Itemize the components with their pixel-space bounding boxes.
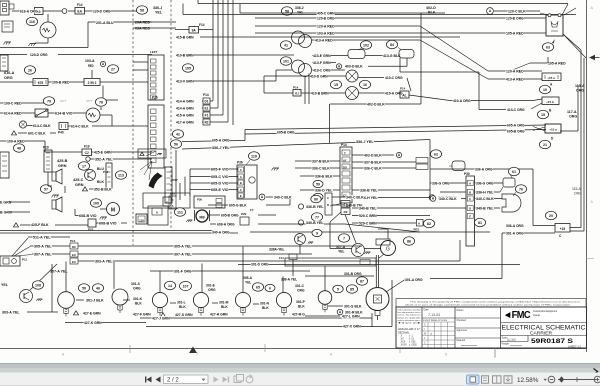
svg-text:P14: P14 (341, 143, 347, 147)
svg-text:103-A RED: 103-A RED (317, 30, 335, 35)
node 57 (40, 185, 51, 193)
svg-text:15: 15 (541, 113, 545, 117)
svg-text:119: 119 (251, 154, 257, 158)
wire 336-D YEL (300, 189, 340, 191)
svg-text:LEFT: LEFT (150, 50, 158, 54)
svg-text:87: 87 (360, 279, 364, 283)
wire 336-A ORG right (533, 225, 555, 227)
connector 15 A (545, 124, 561, 133)
svg-text:inches. The tolerances: inches. The tolerances (398, 314, 421, 317)
wire 403-D BLK (345, 64, 363, 68)
terminal ring (62, 9, 67, 14)
svg-text:605-B ORG: 605-B ORG (507, 128, 525, 133)
svg-text:427-J GRN: 427-J GRN (152, 315, 170, 320)
svg-text:ORG: ORG (576, 89, 584, 93)
zone ticks (129, 345, 131, 353)
node 41 (280, 41, 291, 49)
svg-text:RES: RES (414, 228, 420, 232)
motor brackets (194, 210, 196, 221)
wire 427-H GRN (210, 312, 228, 316)
wire 529-C BRN (352, 215, 430, 217)
svg-text:601-C BLK: 601-C BLK (28, 131, 46, 136)
wire 336-C BLK pin (352, 167, 416, 169)
connector 415 A (542, 73, 561, 81)
node 6 (265, 284, 275, 291)
ground radio (53, 194, 59, 196)
title block notice strip (396, 299, 586, 308)
svg-text:301-B ORG: 301-B ORG (344, 271, 362, 276)
svg-text:26: 26 (28, 68, 32, 72)
svg-text:605-C VIO: 605-C VIO (211, 174, 229, 179)
svg-text:337-B BLK: 337-B BLK (364, 159, 382, 164)
label 301-M BLK (212, 302, 218, 304)
svg-text:425-C: 425-C (73, 178, 84, 182)
label 103-A RED (85, 59, 95, 63)
svg-text:YEL: YEL (338, 250, 345, 254)
transistor dimmer (20, 290, 33, 303)
page fit icon selected (467, 375, 480, 384)
svg-text:C: C (172, 198, 174, 202)
connector box 10 (35, 8, 44, 15)
svg-text:E: E (469, 214, 471, 218)
svg-text:413-0 GRN: 413-0 GRN (176, 78, 194, 83)
node 14 (164, 281, 175, 289)
wire 120-A RED (255, 25, 420, 27)
svg-text:59R0187 S: 59R0187 S (531, 338, 574, 345)
svg-text:336-A ORG: 336-A ORG (506, 223, 524, 228)
svg-text:P14: P14 (400, 87, 406, 91)
wire 427-S GRN (175, 313, 193, 317)
svg-text:F7: F7 (250, 208, 254, 212)
wire 307-A YEL long (78, 253, 312, 255)
connector P19 (44, 150, 52, 172)
switch feed diagonals (562, 4, 568, 15)
ground upper left (5, 41, 11, 43)
zone tick below title block (494, 348, 496, 358)
svg-text:9: 9 (316, 231, 318, 235)
svg-text:301-J BLK: 301-J BLK (86, 297, 104, 302)
svg-text:ORG: ORG (4, 76, 13, 80)
svg-text:ORG: ORG (297, 289, 305, 293)
node 61 (508, 167, 519, 175)
svg-text:336-C BLK: 336-C BLK (364, 165, 382, 170)
svg-text:427-F GRN: 427-F GRN (133, 311, 151, 316)
svg-text:41: 41 (284, 43, 288, 47)
svg-text:ORG: ORG (574, 192, 582, 196)
svg-text:86: 86 (407, 239, 411, 243)
node 113 (115, 171, 126, 179)
svg-text:This drawing is the property o: This drawing is the property of FMC Corp… (410, 300, 580, 303)
svg-text:605-G BLK: 605-G BLK (229, 202, 247, 207)
speaker 2 (52, 200, 56, 209)
title block distribution grid (422, 317, 455, 319)
svg-text:D: D (327, 203, 329, 207)
svg-text:+15 a: +15 a (549, 128, 557, 132)
svg-text:58: 58 (140, 8, 144, 12)
label 338A-YEL (269, 247, 285, 251)
svg-text:62: 62 (434, 152, 438, 156)
wire 336-B YEL pin (352, 189, 430, 191)
svg-text:Group: Group (533, 314, 541, 317)
svg-text:7-13-51: 7-13-51 (428, 313, 440, 317)
svg-text:111: 111 (177, 210, 183, 214)
node 5 (333, 285, 343, 293)
svg-text:C: C (469, 197, 471, 201)
wire 413-G BLK (365, 55, 399, 57)
svg-text:8: 8 (62, 353, 64, 357)
svg-text:7: 7 (196, 353, 198, 357)
svg-text:402-D BLK: 402-D BLK (367, 101, 385, 106)
svg-text:340-A ORG: 340-A ORG (212, 229, 230, 234)
node 26 (24, 66, 35, 74)
svg-text:105-A RED: 105-A RED (548, 60, 566, 65)
wire 301-R BLK (337, 309, 343, 315)
wire 402-D BLK horizontal (330, 103, 421, 105)
svg-text:85: 85 (350, 287, 354, 291)
nav first page button (147, 377, 152, 383)
title block checked row (455, 327, 501, 329)
svg-text:120-D ORG: 120-D ORG (93, 9, 111, 14)
wire 605-B ORG mid (208, 214, 220, 216)
warning triangle 352 (82, 187, 87, 191)
svg-text:BLK: BLK (135, 302, 142, 306)
svg-text:413-G BLK: 413-G BLK (383, 53, 401, 58)
wire 340-B YEL right2 (352, 207, 446, 209)
svg-text:15: 15 (334, 83, 338, 87)
node 48 (13, 144, 24, 152)
svg-text:117-A: 117-A (567, 110, 577, 114)
wire 410-A ORG right (409, 95, 450, 101)
wire 109-B RED (48, 81, 84, 83)
relay bracket (452, 161, 465, 171)
headlight main (366, 288, 389, 311)
svg-text:Weight: Weight (502, 342, 510, 345)
node 85 (346, 285, 357, 293)
lamp indicator 2 (346, 87, 359, 100)
svg-text:F1: F1 (205, 113, 209, 117)
fan from connector C8 (12, 238, 28, 256)
svg-text:B: B (240, 181, 242, 185)
svg-text:BLK: BLK (179, 305, 186, 309)
svg-text:101: 101 (283, 59, 289, 63)
svg-text:C: C (240, 168, 242, 172)
node 60 (313, 193, 323, 200)
svg-text:P14: P14 (70, 239, 76, 243)
headlamp 6 (276, 292, 291, 307)
svg-text:± .01: ± .01 (409, 339, 415, 341)
svg-text:2 / 2: 2 / 2 (167, 378, 179, 384)
wire 405-C GRN (240, 12, 445, 14)
headlamp 3 (152, 292, 167, 307)
node 50 (78, 284, 89, 292)
svg-text:305-A: 305-A (243, 276, 253, 280)
svg-text:ORG: ORG (133, 287, 141, 291)
svg-text:17: 17 (82, 164, 86, 168)
svg-text:340-B YEL: 340-B YEL (306, 220, 324, 225)
svg-text:AL: AL (402, 93, 406, 97)
svg-text:YEL: YEL (297, 11, 304, 15)
svg-text:336-J YEL: 336-J YEL (212, 145, 230, 150)
wire 340-C BLK cluster (259, 194, 265, 200)
wire 120-D ORG (85, 10, 141, 12)
svg-text:E GRN: E GRN (0, 201, 12, 205)
svg-text:.XXX: .XXX (400, 342, 406, 344)
wire into pin B left (440, 191, 466, 193)
title block drawn row (455, 317, 501, 319)
svg-text:301-L: 301-L (177, 301, 186, 305)
svg-text:307-A YEL: 307-A YEL (174, 251, 192, 256)
svg-text:414-A GRN: 414-A GRN (176, 106, 194, 111)
wire 340-B YEL right (475, 207, 500, 209)
svg-text:109: 109 (93, 201, 99, 205)
wires crossing into P20 (100, 81, 148, 83)
next view icon disabled (246, 376, 253, 383)
svg-text:336-B YEL: 336-B YEL (306, 204, 324, 209)
svg-text:338A-YEL: 338A-YEL (269, 247, 285, 252)
wire 417-A GRN (176, 120, 194, 124)
wire 303-A YEL 2 (27, 311, 58, 313)
svg-text:410-B BRN: 410-B BRN (311, 90, 329, 95)
wire D2 to regulator (345, 215, 356, 244)
svg-text:C: C (240, 188, 242, 192)
svg-text:413-F GRN: 413-F GRN (313, 60, 331, 65)
svg-text:6: 6 (330, 353, 332, 357)
connector P14 center (340, 147, 352, 203)
connector pins D1 E1 F1 R2 (202, 100, 213, 102)
svg-text:Material: Material (457, 339, 466, 342)
svg-text:ORG: ORG (208, 288, 216, 292)
transistor audio (85, 170, 96, 181)
wire 340-B YEL 2 (298, 220, 303, 225)
node 56 (170, 140, 181, 148)
svg-text:20: 20 (549, 214, 553, 218)
svg-text:P27: P27 (173, 178, 179, 182)
svg-text:BLK: BLK (221, 305, 228, 309)
toolbar background (0, 373, 600, 386)
wire 402-D BLK riser (420, 13, 422, 104)
bookmark icon (482, 376, 489, 383)
svg-text:427-K GRN: 427-K GRN (84, 320, 102, 325)
svg-text:80: 80 (314, 197, 318, 201)
warning triangle 427-E (73, 311, 78, 315)
headlamp 1 (58, 292, 75, 309)
svg-text:115-A: 115-A (575, 84, 585, 88)
wire 413-C ORG (312, 69, 345, 71)
horizontal scrollbar track (0, 364, 600, 373)
long wire bus 340 (0, 230, 213, 232)
svg-text:113: 113 (118, 173, 124, 177)
wire 336-A ORG top (430, 168, 533, 170)
wire 336-G ORG right (475, 182, 503, 184)
node 59 (313, 180, 323, 187)
svg-text:65: 65 (256, 285, 260, 289)
svg-text:F19: F19 (84, 145, 90, 149)
svg-text:Date: Date (424, 309, 430, 312)
svg-text:B GRN: B GRN (0, 211, 12, 215)
page number input (164, 375, 209, 384)
transistor flasher mid (295, 234, 306, 245)
page border bottom (0, 348, 587, 350)
svg-text:Construction Equipment: Construction Equipment (533, 310, 557, 313)
title block tolerance column (421, 307, 423, 348)
svg-text:402-D: 402-D (426, 6, 436, 10)
svg-text:YEL: YEL (1, 283, 9, 287)
riser for VIO wires (189, 169, 191, 196)
wire 427-E GRN (83, 311, 101, 315)
svg-text:336-G ORG: 336-G ORG (476, 180, 494, 185)
noise suppressor 614-C (19, 121, 26, 128)
svg-text:340-C BLK: 340-C BLK (476, 196, 494, 201)
connector P18 strip (106, 163, 112, 188)
warning triangle 425-F (13, 223, 18, 227)
wire 605-G BLK (208, 204, 228, 206)
node 21 (539, 140, 550, 148)
svg-text:RJ: RJ (295, 92, 299, 96)
fit width icon (504, 376, 512, 383)
lamp indicator 1 (346, 70, 358, 82)
svg-text:413-E GRN: 413-E GRN (313, 53, 331, 58)
svg-text:P11: P11 (22, 258, 28, 262)
node 77 (311, 213, 322, 221)
node 81 (474, 218, 485, 226)
relay A cluster (148, 206, 168, 225)
zone tick right margin (586, 258, 594, 260)
vertical riser 427 bundle (212, 0, 214, 98)
wire 427-X bus (146, 326, 392, 328)
svg-text:427-S GRN: 427-S GRN (175, 312, 193, 317)
title block company column (500, 307, 502, 348)
svg-text:D2: D2 (344, 210, 348, 214)
node 80 (311, 195, 321, 203)
wire 336-H YEL right (475, 191, 500, 193)
svg-text:EA: EA (77, 10, 82, 14)
svg-text:A: A (172, 204, 174, 208)
svg-text:109-A RED: 109-A RED (7, 139, 25, 144)
wire 340-B YEL pin D (446, 207, 466, 209)
svg-text:414-A GRN: 414-A GRN (176, 99, 194, 104)
dashed harness boundary right (170, 0, 172, 228)
wire 425-F BLK (20, 224, 37, 226)
svg-text:fied: fied (398, 323, 421, 325)
wire 301-B ORG (344, 272, 362, 276)
lever box (138, 149, 166, 158)
svg-text:EX: EX (72, 253, 76, 257)
node 116 (26, 17, 37, 25)
nav last page button disabled (223, 377, 228, 383)
svg-text:DECIMAL: DECIMAL (398, 331, 410, 335)
svg-text:M: M (111, 208, 115, 214)
node 62 (430, 150, 441, 158)
wire 402-D BLK pin (352, 154, 394, 156)
svg-text:P19: P19 (43, 146, 49, 150)
svg-text:608-A ORG: 608-A ORG (217, 221, 235, 226)
zoom out button (548, 376, 555, 383)
svg-text:48: 48 (17, 146, 21, 150)
scale row divider (501, 335, 587, 337)
terminal block left edge (0, 55, 8, 71)
headlamp 4 (193, 292, 208, 307)
fuse 9A (189, 27, 199, 34)
svg-text:410-B BRN: 410-B BRN (176, 52, 194, 57)
svg-text:P36: P36 (197, 198, 202, 202)
svg-text:107: 107 (183, 284, 189, 288)
wire 616-A ORG (12, 10, 34, 12)
svg-text:403-D BLK: 403-D BLK (345, 64, 363, 69)
svg-text:CARRIER: CARRIER (530, 331, 552, 336)
connector P20 upper (148, 55, 164, 100)
fuse AL P14 (400, 91, 409, 98)
lamp small (318, 291, 332, 305)
svg-text:605-E VIO: 605-E VIO (211, 187, 229, 192)
wire 605-D VIO (190, 182, 238, 184)
svg-text:◄FMC: ◄FMC (503, 310, 530, 321)
relay 84 (399, 50, 414, 59)
svg-text:336-B YEL: 336-B YEL (360, 187, 378, 192)
svg-text:RED: RED (88, 63, 94, 68)
svg-text:P14: P14 (293, 86, 299, 90)
svg-text:AY: AY (343, 159, 347, 163)
svg-text:307-A YEL: 307-A YEL (50, 269, 68, 274)
svg-text:105: 105 (185, 66, 191, 70)
svg-text:Approved: Approved (457, 329, 468, 332)
svg-text:352-B BLK: 352-B BLK (94, 187, 112, 192)
svg-text:301-S: 301-S (131, 282, 141, 286)
cursor arrow (589, 55, 595, 60)
svg-text:336-J: 336-J (153, 6, 162, 10)
top long wires (198, 3, 568, 5)
svg-text:± .005: ± .005 (409, 342, 416, 344)
label 301-L BLK (170, 302, 176, 304)
svg-text:± .0005: ± .0005 (409, 345, 417, 347)
wire corner structure (399, 58, 401, 72)
node 15 right (537, 110, 548, 118)
wire 307-A YEL branch (50, 269, 68, 273)
svg-text:84: 84 (390, 43, 394, 47)
switch 614 (0, 112, 35, 114)
node A 403 (336, 64, 341, 69)
wire 415-A GRN (176, 113, 194, 117)
svg-text:F14: F14 (279, 256, 284, 260)
wire 336-J YEL label (182, 140, 430, 150)
wire 120-A RED right (488, 70, 542, 72)
riser right outer (583, 58, 585, 231)
svg-text:120-A RED: 120-A RED (317, 23, 335, 28)
svg-text:P36: P36 (237, 161, 243, 165)
wire 301-D ORG (238, 264, 520, 266)
svg-text:614-A RED: 614-A RED (4, 111, 22, 116)
svg-text:T: T (344, 152, 346, 156)
svg-text:109-B RED: 109-B RED (52, 80, 70, 85)
wire 605-B ORG long (245, 130, 546, 135)
fuse F14 RJ (293, 90, 301, 97)
svg-text:417-A GRN: 417-A GRN (176, 120, 194, 125)
svg-text:whole or in part, of design an: whole or in part, of design and details … (405, 304, 572, 307)
svg-text:305-A YEL: 305-A YEL (34, 243, 52, 248)
node 58 left (136, 6, 147, 14)
node 87 (356, 277, 367, 285)
svg-text:6: 6 (269, 286, 271, 290)
svg-text:P23: P23 (88, 228, 94, 232)
svg-text:G: G (386, 247, 390, 253)
wire 336-E BLK (300, 175, 340, 177)
svg-text:P29: P29 (241, 212, 247, 216)
svg-text:F14: F14 (199, 23, 205, 27)
svg-text:116: 116 (29, 20, 35, 24)
svg-text:5: 5 (337, 287, 339, 291)
wire 427-F GRN (133, 312, 151, 316)
relay 110 box (136, 214, 147, 224)
svg-text:413-A RED: 413-A RED (315, 37, 333, 42)
